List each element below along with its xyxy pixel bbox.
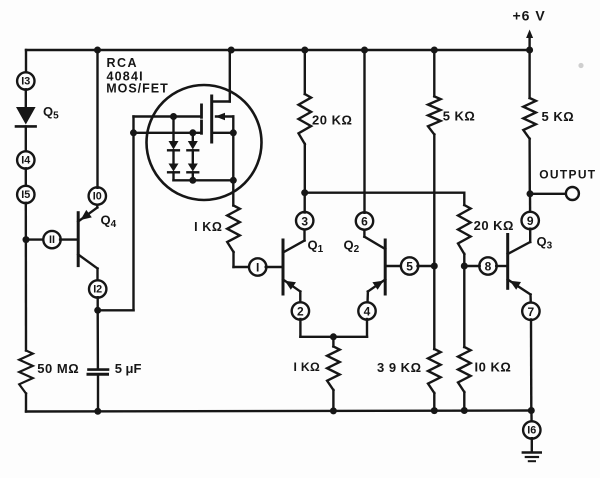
svg-text:II: II (49, 234, 55, 246)
svg-text:I KΩ: I KΩ (294, 360, 321, 374)
svg-text:20 KΩ: 20 KΩ (312, 113, 352, 128)
svg-text:RCA: RCA (107, 56, 139, 70)
svg-text:I6: I6 (527, 425, 536, 437)
svg-text:3 9 KΩ: 3 9 KΩ (377, 360, 422, 375)
svg-text:MOS/FET: MOS/FET (106, 82, 169, 96)
svg-text:5 KΩ: 5 KΩ (542, 109, 575, 124)
svg-text:I2: I2 (93, 284, 102, 296)
svg-text:9: 9 (527, 214, 534, 228)
svg-text:3: 3 (301, 214, 308, 228)
svg-text:I5: I5 (21, 189, 30, 201)
svg-text:+6 V: +6 V (513, 8, 546, 24)
svg-text:8: 8 (485, 260, 492, 274)
svg-text:6: 6 (361, 215, 368, 229)
svg-text:I KΩ: I KΩ (194, 220, 222, 234)
svg-text:I0 KΩ: I0 KΩ (475, 360, 512, 375)
svg-text:I4: I4 (21, 155, 30, 167)
svg-text:4: 4 (364, 305, 371, 319)
svg-text:I0: I0 (93, 191, 102, 203)
svg-text:7: 7 (528, 305, 535, 319)
svg-text:I3: I3 (21, 76, 30, 88)
svg-text:OUTPUT: OUTPUT (539, 168, 596, 182)
svg-text:5 KΩ: 5 KΩ (443, 109, 476, 124)
svg-text:20 KΩ: 20 KΩ (474, 218, 514, 233)
svg-text:50 MΩ: 50 MΩ (37, 361, 79, 376)
svg-text:5 μF: 5 μF (115, 361, 142, 376)
svg-text:2: 2 (297, 305, 304, 319)
svg-text:5: 5 (406, 260, 413, 274)
svg-text:I: I (256, 261, 259, 275)
